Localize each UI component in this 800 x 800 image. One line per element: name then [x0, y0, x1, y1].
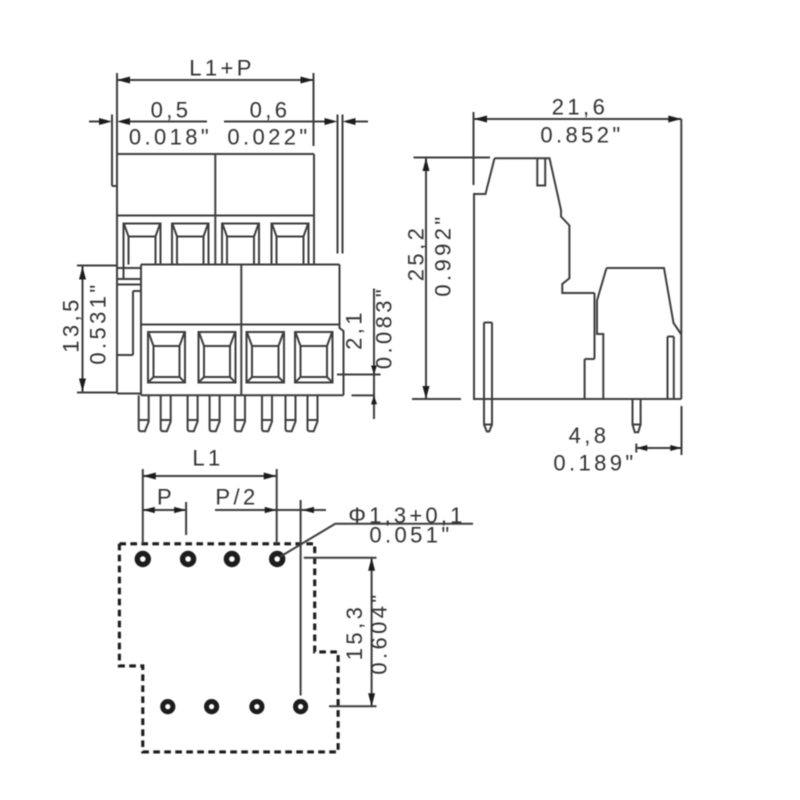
dimension 0.051in label: [369, 522, 452, 547]
dimension 25,2 line: [425, 158, 427, 399]
dimension 0.531in label: [85, 281, 110, 364]
front view: solder pin 8: [308, 395, 318, 431]
dimension 13,5 extension lines: [77, 266, 118, 393]
front view: upper body left rib (0,5 wall): [112, 115, 117, 187]
front view: solder pin 5: [235, 395, 245, 431]
front view: upper-tier clamp opening 4: [272, 224, 309, 265]
drill plan: lower hole 2: [207, 702, 217, 712]
side view: left solder pin: [484, 399, 492, 432]
dimension 2,1 label: [341, 309, 366, 350]
dimension 0.083in label: [371, 286, 396, 369]
dimension 0.992in label: [430, 213, 455, 296]
svg-text:0.531": 0.531": [85, 281, 110, 364]
drill plan: upper hole 2: [183, 554, 194, 565]
svg-text:P: P: [157, 484, 175, 509]
dimension P line: [143, 509, 186, 511]
dimension 0,5 arrows: [99, 118, 130, 125]
dimension L1+P label: [189, 55, 255, 80]
front view: lower-tier clamp row line: [141, 324, 340, 326]
dimension L1 arrows: [143, 473, 277, 480]
dimension 2,1 extension lines: [337, 375, 381, 396]
dimension 15,3 line: [371, 558, 373, 707]
front view: L1+P right extension line: [313, 73, 315, 146]
svg-text:0.018": 0.018": [129, 124, 212, 149]
dimension 25,2 arrows: [423, 158, 430, 399]
dimension 21,6 line: [474, 118, 681, 120]
drill plan: lower hole 1: [163, 702, 173, 712]
svg-text:21,6: 21,6: [552, 94, 608, 119]
svg-text:0.022": 0.022": [227, 124, 310, 149]
dimension 13,5 label: [58, 296, 83, 352]
side view: left pin channel: [484, 323, 492, 400]
dimension 15,3 arrows: [368, 558, 375, 707]
dimension 15,3 label: [342, 604, 367, 660]
front view: upper-tier body outline: [117, 73, 314, 394]
front view: upper body pole divider: [214, 154, 216, 265]
side view: lower tower outline: [585, 268, 681, 399]
dimension 21,6 arrows: [474, 116, 681, 123]
dimension P/2 extension line: [300, 500, 302, 696]
dimension 2,1 line: [373, 289, 375, 420]
svg-text:4,8: 4,8: [569, 423, 610, 448]
front view: solder pin 7: [286, 395, 296, 431]
svg-text:0.189": 0.189": [553, 450, 636, 475]
dimension 4,8 label: [569, 423, 610, 448]
dimension P/2 label: [215, 484, 258, 509]
drill plan: lower hole 3: [252, 702, 262, 712]
dimension 21,6 label: [552, 94, 608, 119]
dimension 25,2 label: [403, 225, 428, 281]
dimension 4,8 line: [636, 447, 681, 449]
front view: lower-tier clamp opening 1: [148, 332, 185, 383]
dimension P extension line: [185, 502, 187, 535]
dimension 2,1 arrows: [371, 366, 377, 405]
front view: left wire-funnel detail lines: [117, 268, 141, 355]
front view: 0,6 extension line pair: [338, 115, 343, 254]
dimension hole diameter label: [348, 503, 465, 528]
dimension L1 extension lines: [143, 469, 277, 544]
front view: solder pin 3: [188, 395, 198, 431]
svg-text:25,2: 25,2: [403, 225, 428, 281]
svg-text:0.992": 0.992": [430, 213, 455, 296]
dimension 0.604in label: [367, 591, 392, 674]
dimension 0.018in label: [129, 124, 212, 149]
svg-text:0,5: 0,5: [151, 97, 192, 122]
dimension L1+P arrows: [117, 77, 314, 84]
svg-text:L1+P: L1+P: [189, 55, 255, 80]
svg-text:0.852": 0.852": [540, 122, 623, 147]
dimension 0,5 line: [89, 121, 207, 123]
dimension 15,3 extension lines: [304, 558, 377, 707]
dimension 25,2 extension lines: [412, 158, 490, 400]
dimension 4,8 arrows: [636, 445, 681, 451]
front view: upper-tier clamp opening 2: [172, 224, 209, 265]
dimension 0.022in label: [227, 124, 310, 149]
side view: right solder pin: [633, 399, 641, 432]
svg-text:0.051": 0.051": [369, 522, 452, 547]
front view: lower-tier body outline: [141, 265, 344, 396]
drill plan: upper hole 3: [226, 554, 237, 565]
dimension 0.189in label: [553, 450, 636, 475]
front view: solder pin 2: [161, 395, 171, 431]
dimension P label: [157, 484, 175, 509]
dimension 21,6 extension line: [473, 112, 475, 185]
front view: lower body pole divider: [240, 265, 242, 396]
drill plan: lower hole 4: [296, 702, 306, 712]
front view: solder pin 1: [139, 395, 149, 431]
svg-text:0,6: 0,6: [250, 97, 291, 122]
dimension 0,6 label: [250, 97, 291, 122]
dimension 0,6 line: [224, 121, 368, 123]
dimension L1+P line: [117, 79, 314, 81]
front view: lower-tier clamp opening 2: [199, 332, 236, 383]
dimension 0,6 arrows: [325, 118, 356, 125]
front view: lower-tier clamp opening 3: [247, 332, 285, 383]
side view: latch slot: [537, 158, 545, 185]
side view: right pin channel: [668, 337, 674, 400]
front view: lower-tier clamp opening 4: [295, 332, 333, 383]
svg-text:0.604": 0.604": [367, 591, 392, 674]
dimension L1 label: [192, 445, 223, 470]
svg-text:0.083": 0.083": [371, 286, 396, 369]
dimension 13,5 arrows: [79, 267, 86, 392]
drill plan: upper hole 4: [272, 554, 283, 565]
svg-text:2,1: 2,1: [341, 309, 366, 350]
drill plan: upper hole 1: [137, 554, 148, 565]
dimension P arrows: [143, 507, 186, 513]
dimension 4,8 extension lines: [636, 406, 681, 455]
svg-text:13,5: 13,5: [58, 296, 83, 352]
front view: upper-tier clamp opening 1: [124, 224, 161, 281]
drill plan: dashed footprint outline: [119, 544, 338, 752]
front view: upper-tier clamp opening 3: [222, 224, 259, 265]
svg-text:L1: L1: [192, 445, 223, 470]
drill plan: hole diameter leader line: [280, 524, 473, 557]
front view: upper body bottom strip: [117, 393, 141, 395]
dimension 0.852in label: [540, 122, 623, 147]
dimension 0,5 label: [151, 97, 192, 122]
svg-text:P/2: P/2: [215, 484, 258, 509]
dimension L1 line: [143, 475, 277, 477]
front view: solder pin 4: [210, 395, 220, 431]
side view: body outline: [474, 119, 681, 399]
front view: solder pin 6: [262, 395, 272, 431]
dimension 13,5 line: [82, 267, 84, 392]
svg-text:15,3: 15,3: [342, 604, 367, 660]
dimension P/2 line: [215, 509, 326, 511]
dimension P/2 arrows: [265, 507, 314, 513]
